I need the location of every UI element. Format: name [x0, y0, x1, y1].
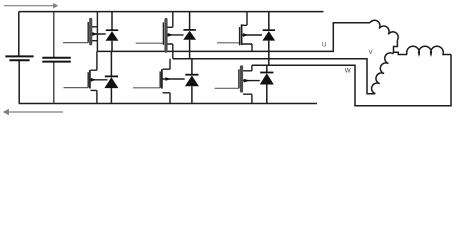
svg-text:V: V — [369, 50, 373, 56]
svg-text:W: W — [345, 68, 351, 75]
svg-text:U: U — [322, 43, 326, 49]
